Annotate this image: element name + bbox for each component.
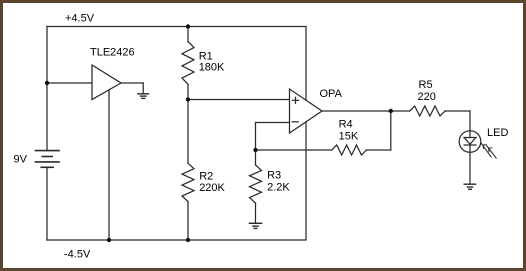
svg-text:R5: R5: [419, 79, 433, 91]
svg-text:LED: LED: [487, 127, 508, 139]
svg-text:R1: R1: [199, 51, 213, 63]
svg-text:2.2K: 2.2K: [267, 182, 290, 194]
svg-text:OPA: OPA: [320, 88, 343, 100]
svg-text:+4.5V: +4.5V: [65, 12, 95, 24]
svg-text:-4.5V: -4.5V: [64, 249, 91, 261]
svg-text:15K: 15K: [339, 130, 359, 142]
svg-text:TLE2426: TLE2426: [90, 47, 135, 59]
svg-text:220: 220: [418, 91, 436, 103]
svg-text:180K: 180K: [199, 62, 225, 74]
svg-text:220K: 220K: [199, 182, 225, 194]
svg-text:R2: R2: [199, 171, 213, 183]
svg-text:9V: 9V: [14, 153, 28, 165]
svg-text:R3: R3: [267, 170, 281, 182]
svg-text:R4: R4: [339, 119, 353, 131]
